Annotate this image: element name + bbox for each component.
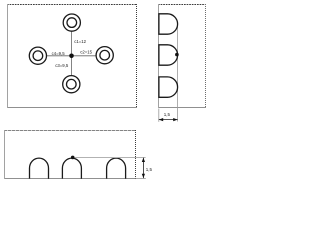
svg-text:c3=9,5: c3=9,5 (55, 63, 69, 68)
svg-text:c1=12: c1=12 (74, 39, 86, 44)
svg-text:c2=15: c2=15 (80, 49, 92, 54)
svg-text:c4=9,5: c4=9,5 (52, 51, 66, 56)
svg-text:1,5: 1,5 (146, 167, 153, 172)
svg-text:1,5: 1,5 (164, 112, 171, 117)
